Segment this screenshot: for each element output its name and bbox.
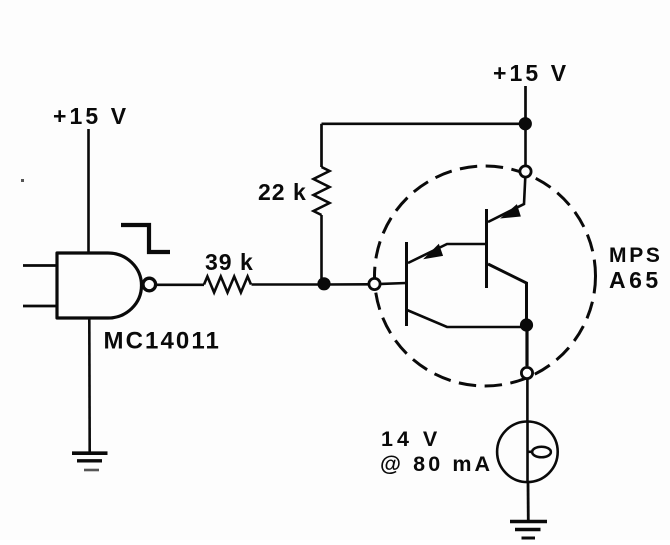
node B junction dot	[520, 318, 533, 331]
ground (right, under lamp)	[510, 522, 547, 539]
transistor Q2 emitter (arrow into bar) up to emitter pin	[488, 177, 525, 222]
resistor R2 22k	[314, 167, 330, 215]
pin: collector terminal (bottom open circle)	[521, 367, 532, 378]
transistor Q2 collector down to node B	[488, 264, 527, 324]
svg-text:+15 V: +15 V	[53, 103, 129, 129]
wire: lamp to ground	[527, 482, 530, 522]
wire: node A to base pin	[324, 283, 369, 286]
wire: rail junction down to emitter pin	[524, 124, 527, 166]
wire: gate Vss down to ground	[88, 318, 91, 453]
lamp DS1 filament ellipse	[532, 447, 551, 458]
ground (left, under gate)	[72, 453, 108, 470]
wire: collector pin down to lamp	[526, 379, 529, 421]
wire: R2 to node A	[320, 215, 323, 285]
wire: base pin to Q1 base bar	[381, 283, 407, 284]
junction dot on +15V rail	[519, 117, 532, 130]
dashed package outline MPS A65	[375, 166, 596, 386]
node A junction dot	[317, 277, 330, 290]
transistor Q1 base bar	[405, 242, 408, 326]
transistor Q1 collector to node B	[407, 310, 527, 327]
wire: top rail horizontal	[322, 122, 526, 125]
wire: through lamp	[526, 421, 529, 483]
svg-text:22 k: 22 k	[258, 179, 307, 205]
svg-text:A65: A65	[609, 267, 662, 293]
resistor R1 39k	[204, 277, 251, 293]
wire: left +15V down to gate Vdd	[87, 129, 90, 253]
scan speck	[21, 179, 24, 182]
svg-text:MPS: MPS	[609, 244, 663, 267]
transistor Q2 base bar	[485, 209, 488, 288]
pin: base terminal (left open circle)	[369, 278, 380, 289]
wire: gate input stub 1	[23, 264, 57, 267]
wire: gate output to R1	[157, 283, 205, 286]
falling-edge waveform symbol	[121, 225, 170, 252]
svg-text:+15 V: +15 V	[493, 60, 569, 86]
lamp filament stub	[528, 450, 534, 453]
gate U1 output inversion bubble	[143, 278, 156, 291]
svg-text:MC14011: MC14011	[104, 328, 221, 355]
wire: R1 to node A	[252, 283, 325, 286]
pin: emitter terminal (top open circle)	[520, 166, 531, 177]
wire: node B down to collector pin	[525, 325, 528, 366]
svg-text:14 V: 14 V	[381, 427, 441, 451]
lamp DS1 body	[497, 422, 558, 483]
wire: top rail corner down to R2	[320, 124, 323, 167]
transistor Q1 emitter (arrow into bar) to Q2 base	[408, 244, 485, 263]
gate U1 MC14011 NAND body	[57, 253, 142, 318]
wire: gate input stub 2	[23, 305, 57, 308]
svg-text:@ 80 mA: @ 80 mA	[380, 452, 493, 476]
wire: right +15V down to rail junction	[524, 86, 527, 124]
svg-text:39 k: 39 k	[205, 249, 254, 275]
